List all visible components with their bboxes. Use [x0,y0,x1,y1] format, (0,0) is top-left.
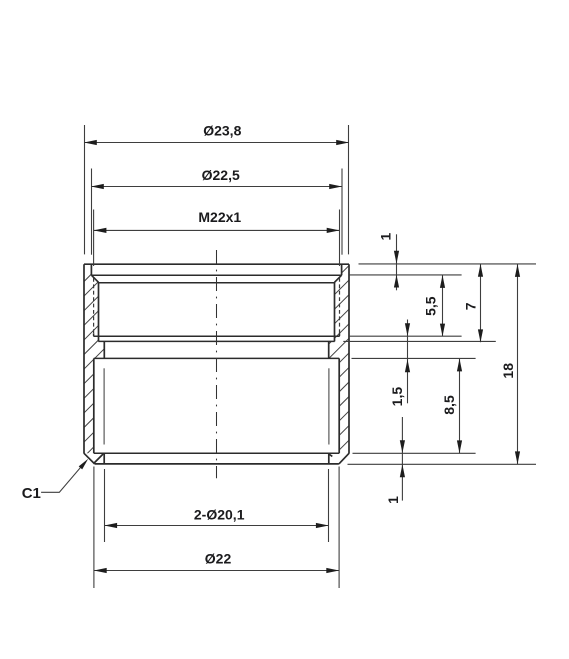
thread runout edge with end hooks [94,333,340,336]
Ø22 extension line right [338,467,340,589]
svg-text:C1: C1 [22,485,41,502]
Ø23,8 extension line right [348,125,350,254]
M22x1 extension line left [93,210,95,267]
svg-text:5,5: 5,5 [423,296,439,316]
vertical centerline [216,250,218,478]
right lower bore edge Ø22 [338,358,340,453]
left M22x1 thread major line (hidden) [93,278,95,333]
dimension 2-Ø20,1 [104,525,328,527]
dimension 8,5 [459,359,461,454]
right Ø20,1 ring edge [328,341,330,358]
svg-text:7: 7 [462,302,478,310]
left Ø20,1 ring edge [103,341,105,358]
right thread entry chamfer [335,275,342,282]
svg-text:8,5: 8,5 [441,395,457,415]
hatched left wall section [0,250,291,470]
extension line top face right [359,263,537,265]
Ø22 extension line left [93,467,95,589]
left bottom chamfer C1 [84,453,95,464]
thread bore bottom edge [98,340,334,342]
2-Ø20,1 extension line right [328,469,330,542]
extension line bottom face right [348,463,537,465]
extension line thread runout right [349,335,461,337]
M22x1 extension line right [339,210,341,267]
svg-text:1: 1 [385,496,401,504]
bottom face edge [95,463,339,465]
dimension 1 (top lip height) [396,234,398,290]
svg-text:Ø23,8: Ø23,8 [203,122,241,138]
2-Ø20,1 extension line left [104,469,106,542]
lower bore bottom edge [94,452,339,454]
svg-text:Ø22,5: Ø22,5 [202,167,240,183]
dimension 1,5 [407,320,409,404]
right M22x1 thread major line (hidden) [339,278,341,333]
extension line thread bore bottom right [343,340,496,342]
ring bottom edge [94,357,339,359]
svg-text:18: 18 [500,363,516,379]
Ø22,5 extension line left [91,169,93,255]
left thread minor bore edge [98,282,100,341]
dimension M22x1 [94,229,340,231]
right bottom lip chamfer stub [329,454,332,456]
dimension 1 (bottom lip height) [401,417,403,501]
dimension 7 [480,264,482,342]
extension line lower bore bottom right [353,452,476,454]
left thread entry chamfer [91,275,98,282]
svg-text:1,5: 1,5 [389,387,405,407]
hatched right wall section [145,250,540,470]
C1 leader line [41,463,84,493]
extension line ring bottom right [352,357,476,359]
dimension Ø22,5 [91,186,342,188]
lip bottom edge [91,274,341,276]
dimension Ø23,8 [84,142,349,144]
left lower bore edge Ø22 [93,358,95,453]
dimension Ø22 [94,570,339,572]
Ø23,8 extension line left [84,125,86,254]
right bottom lip inner edge [328,453,330,464]
dimension 5,5 (thread depth) [442,275,444,336]
left lower thread minor line Ø20,1 [103,368,105,444]
Ø22,5 extension line right [341,169,343,255]
left top lip inner edge Ø22,5 [90,264,92,275]
left outer edge Ø23,8 [83,264,85,453]
right bottom chamfer C1 [339,453,349,464]
left bottom lip thread chamfer [94,454,103,463]
thread bore top edge [99,282,335,284]
dimension 18 (total height) [517,264,519,464]
svg-text:1: 1 [378,232,394,240]
right lower thread minor line Ø20,1 [328,368,330,444]
right outer edge Ø23,8 [348,264,350,453]
right top lip inner edge Ø22,5 [341,264,343,275]
left bottom lip inner edge [103,453,105,464]
svg-text:2-Ø20,1: 2-Ø20,1 [194,506,245,522]
svg-text:M22x1: M22x1 [198,209,241,225]
right thread minor bore edge [334,282,336,341]
top face edge [84,263,349,265]
extension line lip bottom right [349,274,461,276]
svg-text:Ø22: Ø22 [205,551,232,567]
